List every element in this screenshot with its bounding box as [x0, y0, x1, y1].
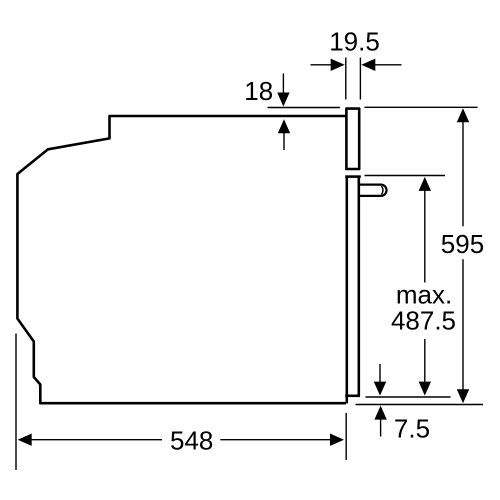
- extension line 548 right: [345, 413, 347, 460]
- dimension 487.5 upper segment: [424, 189, 426, 283]
- dimension 595 down arrow: [457, 389, 469, 403]
- dimension 19.5 right line: [372, 64, 402, 66]
- dimension 7.5 lower line: [380, 418, 382, 437]
- dimension 7.5 up arrow: [374, 406, 386, 420]
- extension line door top right: [365, 175, 446, 177]
- door rear edge: [357, 177, 360, 396]
- dimension 18 lower line: [283, 132, 285, 151]
- extension line 19.5 left: [345, 58, 347, 100]
- svg-text:18: 18: [244, 76, 273, 106]
- extension line 548 left: [15, 334, 17, 471]
- door front edge: [345, 177, 348, 404]
- dimension 548 right arrow: [330, 434, 344, 446]
- dimension 487.5 down arrow: [419, 382, 431, 396]
- extension line door bottom right: [366, 396, 451, 398]
- extension line 19.5 right: [359, 58, 361, 100]
- dimension 487.5 lower segment: [424, 339, 426, 384]
- dimension 19.5 left arrow: [331, 59, 345, 71]
- dimension 18 upper line: [282, 74, 284, 96]
- dimension 7.5 upper line: [379, 364, 381, 384]
- svg-text:7.5: 7.5: [394, 414, 430, 444]
- extension line facade top left: [268, 107, 341, 109]
- svg-text:595: 595: [441, 229, 484, 259]
- extension line facade top right: [365, 106, 478, 108]
- door bottom edge: [345, 394, 360, 397]
- svg-text:19.5: 19.5: [329, 27, 380, 57]
- dimension 595 upper segment: [462, 120, 464, 226]
- dimension 595 up arrow: [457, 108, 469, 122]
- dimension 548 right segment: [220, 439, 332, 441]
- svg-text:487.5: 487.5: [391, 306, 456, 336]
- handle cap inner line: [381, 186, 383, 195]
- dimension 18 down arrow: [277, 93, 289, 107]
- extension line body bottom right: [356, 404, 484, 406]
- front frame (control panel): [346, 109, 359, 169]
- dimension 487.5 up arrow: [419, 177, 431, 191]
- dimension 19.5 right arrow: [361, 59, 375, 71]
- dimension 595 lower segment: [462, 259, 464, 391]
- door top edge: [345, 175, 361, 178]
- oven body outline: [17, 116, 346, 403]
- door handle: [360, 185, 387, 196]
- svg-text:548: 548: [170, 426, 213, 456]
- dimension 548 left segment: [30, 439, 163, 441]
- dimension 7.5 down arrow: [374, 382, 386, 396]
- dimension 548 left arrow: [18, 434, 32, 446]
- dimension 19.5 left line: [311, 64, 335, 66]
- dimension 18 up arrow: [278, 119, 290, 133]
